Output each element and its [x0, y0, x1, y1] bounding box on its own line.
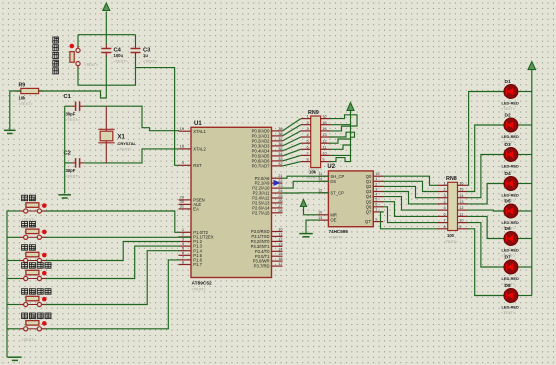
label R9 [19, 83, 26, 89]
wire RN8 pin 9 to D8 [467, 229, 504, 296]
pin 10 (RN8 right) [458, 219, 468, 223]
pin 36 P0.3/AD3 (U1 right) [252, 141, 283, 149]
pin 9 Q7' (U2 right) [365, 218, 383, 225]
svg-text:11: 11 [322, 145, 326, 149]
svg-text:2: 2 [443, 188, 445, 192]
svg-text:9: 9 [375, 218, 377, 222]
pin 2 P1.1/T2EX (U1 left) [179, 232, 214, 240]
label C3 [143, 47, 151, 53]
svg-text:4: 4 [443, 200, 445, 204]
red indicator dot (K3) [42, 253, 47, 258]
svg-text:17: 17 [278, 261, 282, 266]
label D1 [505, 79, 511, 85]
pin 15 (RN8 right) [458, 188, 468, 192]
pin 33 P0.6/AD6 (U1 right) [252, 156, 283, 164]
pin 12 P3.2/INT0 (U1 right) [251, 236, 283, 244]
pin 34 P0.5/AD5 (U1 right) [252, 151, 284, 159]
pin 1 (RN8 left) [438, 181, 448, 185]
svg-text:14: 14 [322, 127, 326, 131]
wire C2 right to crystal node [84, 162, 142, 164]
wire RN8 pin 13 to D4 [467, 184, 504, 204]
pin 38 P0.1/AD1 (U1 right) [252, 131, 283, 139]
svg-text:10: 10 [318, 211, 322, 215]
red indicator dot (K1) [42, 203, 47, 208]
svg-text:D5: D5 [505, 199, 511, 205]
wire C4 bottom to R9 node [101, 57, 107, 98]
pin 11 (RN8 right) [458, 213, 468, 217]
value D5 LED-RED [502, 220, 519, 225]
svg-text:1u: 1u [143, 53, 148, 58]
label D7 [505, 255, 511, 261]
value C4 100u [114, 53, 124, 58]
svg-text:LED-RED: LED-RED [502, 164, 519, 169]
svg-text:Q7': Q7' [365, 219, 372, 224]
value D1 LED-RED [502, 101, 519, 106]
wire MR to VCC [304, 214, 319, 216]
wire P2.0 to SH_CP [283, 176, 329, 178]
pin 1 (RN9 left) [301, 115, 311, 119]
led D7 [504, 260, 532, 274]
label R9 TEXT [19, 102, 34, 106]
wire RN9 pin11 to bus [331, 145, 351, 149]
wire RN8 pin 10 to D7 [467, 223, 504, 267]
wire RN9 pin13 to bus [331, 132, 355, 137]
wire Q6 to RN8 pin 7 [383, 207, 438, 223]
label RN9 [308, 110, 319, 116]
wire XTAL1 [142, 106, 179, 131]
wire K5 to U1 [47, 251, 179, 305]
svg-text:R9: R9 [19, 83, 26, 89]
svg-text:<TEXT>: <TEXT> [66, 175, 81, 179]
svg-text:2: 2 [375, 182, 377, 186]
svg-text:9: 9 [182, 160, 184, 165]
svg-text:13: 13 [318, 216, 322, 220]
svg-text:EA: EA [193, 207, 199, 212]
svg-text:<TEXT>: <TEXT> [501, 311, 516, 315]
svg-text:6: 6 [375, 203, 377, 207]
pin 13 P3.3/INT1 (U1 right) [251, 241, 283, 249]
wire P0.7 to RN9 pin 8 [283, 162, 301, 166]
svg-text:D4: D4 [505, 171, 511, 177]
svg-text:Q7: Q7 [366, 210, 372, 215]
svg-text:15: 15 [459, 188, 463, 192]
svg-text:ST_CP: ST_CP [330, 190, 344, 195]
svg-text:7: 7 [443, 219, 445, 223]
svg-text:100u: 100u [114, 53, 124, 58]
pin 14 P3.4/T0 (U1 right) [255, 246, 284, 254]
resistor R9 [15, 88, 44, 93]
svg-text:P2.7/A15: P2.7/A15 [252, 210, 270, 215]
svg-text:10: 10 [322, 152, 326, 156]
wire VCC bus vertical [350, 119, 352, 162]
label D3 [505, 142, 511, 148]
label X1 TEXT [118, 147, 133, 151]
button K6 夜间切换 [19, 321, 46, 331]
wire P0.5 to RN9 pin 6 [283, 149, 301, 156]
wire RN9 pin14 to bus [331, 126, 351, 131]
pin 29 PSEN (U1 left) [179, 195, 205, 203]
label C2 TEXT [66, 175, 81, 179]
wire P0.1 to RN9 pin 2 [283, 125, 301, 136]
pin 14 DS (U2 left) [318, 177, 336, 184]
svg-text:14: 14 [459, 194, 463, 198]
svg-text:12: 12 [459, 206, 463, 210]
wire RN8 pin 11 to D6 [467, 216, 504, 238]
svg-text:7: 7 [375, 208, 377, 212]
svg-text:3: 3 [306, 127, 308, 131]
wire RN9 pin10 to bus [331, 154, 351, 156]
svg-text:15: 15 [322, 121, 326, 125]
wire RN9 pin12 to bus [331, 139, 351, 143]
red indicator dot (K2) [42, 230, 47, 235]
wire RN8 pin 16 to D1 [467, 92, 504, 186]
label button K7 TEXT [84, 63, 99, 67]
svg-text:5: 5 [443, 206, 445, 210]
wire P2.3 to ST_CP [283, 192, 329, 194]
label D5 TEXT [501, 227, 516, 231]
wire rail to K5 [7, 304, 19, 306]
pin 10 MR (U2 left) [318, 211, 337, 218]
label 左转 (K2) [22, 222, 36, 228]
value D4 LED-RED [502, 193, 519, 198]
label D3 TEXT [501, 170, 516, 174]
pin 30 ALE (U1 left) [179, 199, 202, 207]
label D6 TEXT [501, 254, 516, 258]
svg-text:<TEXT>: <TEXT> [192, 288, 207, 292]
shift register U2 74HC595 body [328, 171, 373, 227]
label C4 [114, 47, 122, 53]
svg-text:10: 10 [459, 219, 463, 223]
capacitor C1 [71, 101, 84, 111]
svg-text:16: 16 [322, 115, 326, 119]
svg-text:C1: C1 [64, 94, 72, 100]
label RN8 [446, 176, 457, 182]
pin 4 Q4 (U2 right) [366, 193, 383, 200]
wire Q0 to RN8 pin 1 [383, 176, 438, 185]
pin 11 (RN9 right) [321, 145, 331, 149]
svg-text:11: 11 [318, 172, 322, 176]
svg-text:D1: D1 [505, 79, 511, 85]
svg-text:32: 32 [278, 161, 282, 166]
pin 12 ST_CP (U2 left) [318, 189, 344, 196]
svg-text:D3: D3 [505, 142, 511, 148]
label RN9 TEXT [306, 176, 321, 180]
svg-text:<TEXT>: <TEXT> [118, 147, 133, 151]
svg-text:LED-RED: LED-RED [502, 193, 519, 198]
wire crystal left rail [64, 106, 66, 193]
svg-text:<TEXT>: <TEXT> [22, 218, 37, 222]
wire P0.2 to RN9 pin 3 [283, 131, 301, 141]
wire C3 top stub [135, 35, 137, 44]
svg-text:5: 5 [306, 139, 308, 143]
button K7 (reset, vertical) [70, 46, 80, 69]
value RN8 100 [447, 233, 455, 238]
svg-text:LED-RED: LED-RED [502, 134, 519, 139]
svg-text:D7: D7 [505, 255, 511, 261]
svg-text:30pF: 30pF [66, 112, 76, 117]
led D1 [504, 85, 532, 99]
svg-text:XTAL2: XTAL2 [193, 147, 206, 152]
wire P0.3 to RN9 pin 4 [283, 137, 301, 146]
svg-text:<TEXT>: <TEXT> [114, 59, 129, 63]
value D2 LED-RED [502, 134, 519, 139]
wire button K7 bottom to RST net [78, 57, 136, 85]
label D8 TEXT [501, 311, 516, 315]
pin 5 Q5 (U2 right) [366, 198, 383, 205]
label 夜间切换 (K6) [22, 313, 51, 319]
label K6 TEXT [22, 338, 37, 342]
pin 8 (RN8 left) [438, 225, 448, 229]
label D1 TEXT [501, 107, 516, 111]
label C3 TEXT [143, 59, 158, 63]
svg-text:9: 9 [322, 158, 324, 162]
pin 1 Q1 (U2 right) [366, 177, 383, 184]
svg-text:4: 4 [375, 193, 377, 197]
svg-text:<TEXT>: <TEXT> [22, 338, 37, 342]
pin 7 Q7 (U2 right) [366, 208, 383, 215]
svg-text:13: 13 [322, 133, 326, 137]
pin 12 (RN8 right) [458, 206, 468, 210]
pin 24 P2.3/A11 (U1 right) [253, 188, 284, 196]
wire K2 to U1 [47, 236, 191, 238]
wire RST net to U1 [136, 68, 179, 166]
ground (crystal rail) [58, 195, 70, 198]
pin 7 (RN8 left) [438, 219, 448, 223]
pin 4 P1.3 (U1 left) [179, 241, 203, 249]
wire Q2 to RN8 pin 3 [383, 186, 438, 197]
led D8 [504, 289, 532, 303]
svg-text:100: 100 [447, 233, 455, 238]
pin 18 XTAL2 (U1 left) [179, 144, 207, 152]
wire RN8 pin 15 to D2 [467, 125, 504, 192]
label D2 TEXT [501, 141, 516, 145]
svg-text:16: 16 [459, 181, 463, 185]
label D7 TEXT [501, 283, 516, 287]
pin 22 P2.1/A9 (U1 right) [255, 178, 283, 186]
wire R9 left to ground [10, 91, 21, 130]
pin 7 (RN9 left) [301, 152, 311, 156]
wire C2 left to rail [65, 162, 71, 164]
label 刹车 (K3) [22, 245, 36, 251]
svg-text:LED-RED: LED-RED [502, 248, 519, 253]
wire P2.2 to DS [283, 181, 329, 188]
value C2 30pF [66, 168, 76, 173]
svg-text:1: 1 [306, 115, 308, 119]
capacitor C2 [71, 158, 84, 168]
label D6 [505, 226, 511, 232]
pin 1 P1.0/T2 (U1 left) [179, 227, 209, 235]
label D4 TEXT [501, 199, 516, 203]
value R9 10k [19, 96, 27, 101]
label U2 TEXT [329, 236, 344, 240]
pin 21 P2.0/A8 (U1 right) [255, 173, 283, 181]
svg-text:RST: RST [193, 163, 202, 168]
svg-text:18: 18 [180, 144, 184, 149]
pin 19 XTAL1 (U1 left) [179, 126, 207, 134]
wire C1 left to rail [65, 105, 71, 107]
pin 16 (RN8 right) [458, 181, 468, 185]
pin 28 P2.7/A15 (U1 right) [252, 208, 282, 216]
svg-text:P0.7/AD7: P0.7/AD7 [252, 164, 271, 169]
pin 37 P0.2/AD2 (U1 right) [252, 136, 283, 144]
button K5 危险警示 [19, 296, 46, 306]
wire rail to K1 [7, 210, 19, 212]
svg-text:XTAL1: XTAL1 [193, 129, 206, 134]
pin 11 P3.1/TXD (U1 right) [251, 231, 282, 239]
svg-text:12: 12 [322, 139, 326, 143]
value D3 LED-RED [502, 164, 519, 169]
value D6 LED-RED [502, 248, 519, 253]
svg-text:1: 1 [443, 181, 445, 185]
pin 35 P0.4/AD4 (U1 right) [252, 146, 283, 154]
svg-text:LED-RED: LED-RED [502, 101, 519, 106]
label X1 [118, 135, 126, 141]
capacitor C4 [101, 44, 111, 57]
pin 9 RST (U1 left) [179, 160, 203, 168]
wire LED anode rail [531, 70, 533, 296]
wire OE to ground [306, 220, 318, 233]
value D8 LED-RED [502, 305, 519, 310]
pin 4 (RN8 left) [438, 200, 448, 204]
svg-text:28: 28 [278, 208, 282, 213]
pin 26 P2.5/A13 (U1 right) [252, 198, 282, 206]
svg-text:6: 6 [443, 213, 445, 217]
svg-text:OE: OE [330, 218, 336, 223]
wire rail to K6 [7, 328, 19, 330]
pin 2 (RN8 left) [438, 188, 448, 192]
value C3 1u [143, 53, 148, 58]
svg-text:AT89C52: AT89C52 [192, 281, 213, 287]
power symbol VCC (reset circuit) [103, 3, 110, 44]
svg-text:LED-RED: LED-RED [502, 276, 519, 281]
wire Q5 to RN8 pin 6 [383, 202, 438, 217]
svg-text:<TEXT>: <TEXT> [444, 240, 459, 244]
svg-text:8: 8 [306, 158, 308, 162]
label net TEXT (SH_CP wire) [308, 168, 323, 172]
svg-text:19: 19 [180, 126, 184, 131]
svg-text:<TEXT>: <TEXT> [329, 236, 344, 240]
svg-text:14: 14 [318, 177, 322, 181]
pin 15 P3.5/T1 (U1 right) [255, 251, 283, 259]
wire K1 to U1 [47, 211, 179, 232]
button K1 右转 [19, 203, 46, 213]
svg-text:3: 3 [375, 187, 377, 191]
pin 2 Q2 (U2 right) [366, 182, 383, 189]
pin 3 P1.2 (U1 left) [179, 236, 203, 244]
label RN8 TEXT [444, 240, 459, 244]
svg-text:5: 5 [375, 198, 377, 202]
svg-text:DS: DS [330, 179, 336, 184]
button K2 左转 [19, 229, 46, 239]
wire K4 to U1 [47, 246, 179, 278]
svg-text:6: 6 [306, 145, 308, 149]
label C2 [64, 151, 71, 157]
svg-text:15: 15 [375, 172, 379, 176]
svg-text:D6: D6 [505, 226, 511, 232]
resistor network RN8 body [448, 182, 458, 230]
pin 4 (RN9 left) [301, 133, 311, 137]
pin 8 P1.7 (U1 left) [179, 259, 203, 267]
pin 6 (RN9 left) [301, 145, 311, 149]
svg-text:<TEXT>: <TEXT> [66, 118, 81, 122]
wire rail to K4 [7, 278, 19, 280]
pin 6 P1.5 (U1 left) [179, 250, 203, 258]
pin 10 P3.0/RXD (U1 right) [251, 227, 284, 235]
led D5 [504, 204, 532, 218]
led D2 [504, 118, 532, 132]
label C4 TEXT [114, 59, 129, 63]
svg-text:31: 31 [180, 204, 184, 209]
pin 3 (RN9 left) [301, 127, 311, 131]
wire RN9 pin9 to bus [331, 158, 351, 162]
button K4 检查信号 [19, 270, 46, 280]
button K3 刹车 [19, 252, 46, 262]
pin 12 (RN9 right) [321, 139, 331, 143]
power symbol VCC (RN9) [347, 103, 354, 119]
svg-text:<TEXT>: <TEXT> [143, 59, 158, 63]
pin 15 Q0 (U2 right) [366, 172, 383, 179]
pin 7 P1.6 (U1 left) [179, 255, 203, 263]
svg-text:30pF: 30pF [66, 168, 76, 173]
label D2 [505, 113, 511, 119]
label 危险警示 (K5) [22, 289, 51, 295]
wire button K7 top stub [77, 35, 79, 49]
svg-text:74HC595: 74HC595 [329, 229, 349, 234]
wire Q7 to RN8 pin 8 [381, 212, 438, 229]
pin 11 SH_CP (U2 left) [318, 172, 344, 179]
red indicator dot (K5) [42, 297, 47, 302]
svg-text:<TEXT>: <TEXT> [308, 168, 323, 172]
svg-text:P1.7: P1.7 [193, 262, 202, 267]
svg-text:P3.7/RD: P3.7/RD [254, 264, 270, 269]
svg-text:2: 2 [306, 121, 308, 125]
ground (R9) [4, 130, 16, 133]
label 检查信号 (K4) [22, 263, 51, 269]
svg-text:U1: U1 [194, 121, 202, 127]
crystal X1 [98, 106, 114, 163]
svg-text:1: 1 [375, 177, 377, 181]
svg-text:<TEXT>: <TEXT> [19, 102, 34, 106]
svg-text:CRYSTAL: CRYSTAL [118, 141, 137, 146]
ground (buttons rail) [8, 357, 21, 360]
label U2 [327, 164, 335, 170]
label K1 TEXT [22, 218, 37, 222]
pin 39 P0.0/AD0 (U1 right) [252, 126, 283, 134]
wire RN9 pin15 to bus [331, 124, 351, 126]
pin 16 P3.6/WR (U1 right) [253, 256, 283, 264]
wire P0.0 to RN9 pin 1 [283, 119, 301, 131]
mcu U1 AT89C52 body [191, 127, 272, 277]
svg-text:12: 12 [318, 189, 322, 193]
svg-text:8: 8 [182, 259, 184, 264]
wire RN8 pin 12 to D5 [467, 209, 504, 212]
svg-text:7: 7 [306, 152, 308, 156]
pin 27 P2.6/A14 (U1 right) [252, 203, 282, 211]
wire K3 to U1 [47, 242, 179, 261]
pin 32 P0.7/AD7 (U1 right) [252, 161, 283, 169]
led D6 [504, 232, 532, 246]
svg-text:<TEXT>: <TEXT> [501, 107, 516, 111]
svg-text:RN8: RN8 [446, 176, 457, 182]
label U1 [194, 121, 202, 127]
pin 16 (RN9 right) [321, 115, 331, 119]
svg-text:D2: D2 [505, 113, 511, 119]
wire Q4 to RN8 pin 5 [383, 197, 438, 211]
label C1 [64, 94, 72, 100]
value C1 30pF [66, 112, 76, 117]
svg-text:X1: X1 [118, 135, 126, 141]
svg-text:11: 11 [459, 213, 463, 217]
